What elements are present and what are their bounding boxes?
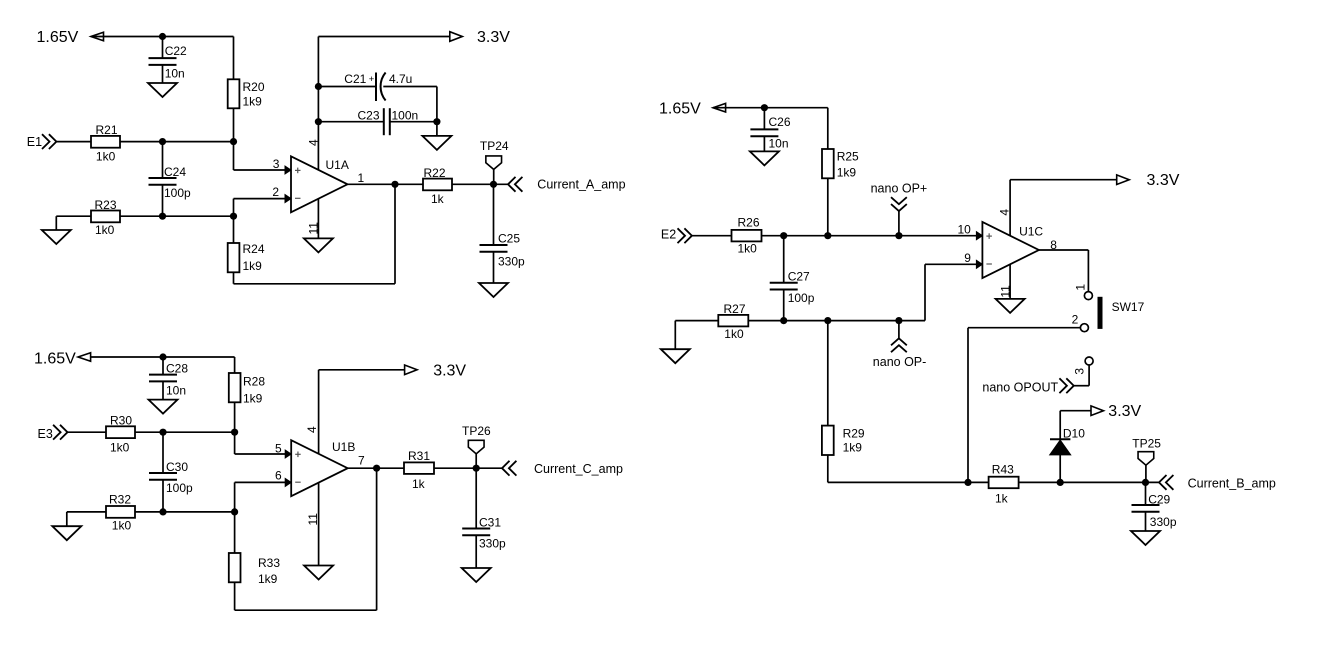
svg-text:1k0: 1k0 [110, 441, 130, 455]
svg-text:Current_A_amp: Current_A_amp [537, 177, 625, 191]
svg-text:1k9: 1k9 [258, 572, 278, 586]
svg-text:R23: R23 [95, 198, 117, 212]
svg-text:3.3V: 3.3V [477, 29, 510, 46]
node junction C23 right [433, 118, 440, 125]
wire feedback A [234, 184, 396, 283]
power flag 3.3V at D10 [1060, 403, 1141, 420]
svg-text:C21: C21 [344, 72, 366, 86]
svg-text:C30: C30 [166, 460, 188, 474]
svg-text:C28: C28 [166, 362, 188, 376]
input port E1 [27, 134, 57, 149]
wire R32 to inverting node B [135, 511, 235, 513]
input port nano OP+ [871, 182, 928, 212]
node junction C27 top [780, 232, 787, 239]
resistor R25 [822, 108, 859, 236]
node junction C30 bottom [159, 508, 166, 515]
ground below C26 [750, 151, 779, 165]
svg-text:1k0: 1k0 [112, 519, 132, 533]
node junction R28 bottom [231, 429, 238, 436]
wire U1A output [348, 183, 424, 185]
svg-text:330p: 330p [498, 255, 525, 269]
capacitor C26 [750, 108, 790, 152]
wire R31 to output port C [434, 467, 502, 469]
svg-text:100p: 100p [166, 481, 193, 495]
switch SW17 body [1098, 297, 1145, 329]
svg-text:C24: C24 [164, 165, 186, 179]
capacitor C22 [149, 37, 188, 84]
resistor R43 [989, 463, 1019, 506]
wire feedback B [235, 468, 377, 610]
node junction C26/rail C [761, 104, 768, 111]
svg-text:1k9: 1k9 [837, 165, 857, 179]
node junction SW17 pin2 column [964, 479, 971, 486]
svg-text:1: 1 [358, 171, 365, 185]
node junction C30 top [159, 429, 166, 436]
wire main row to pin 10 of U1C [762, 223, 983, 240]
svg-text:R22: R22 [424, 166, 446, 180]
capacitor C30 [149, 432, 193, 512]
svg-text:6: 6 [275, 469, 282, 483]
svg-text:1k0: 1k0 [724, 327, 744, 341]
svg-text:1k9: 1k9 [843, 441, 863, 455]
svg-text:2: 2 [272, 185, 279, 199]
svg-text:1.65V: 1.65V [34, 351, 76, 368]
ground below U1B pin 11 [304, 566, 333, 580]
node junction C28/rail B [159, 353, 166, 360]
output port Current_A_amp [508, 177, 626, 192]
op-amp U1C [982, 222, 1057, 278]
input port nano OP- [873, 321, 927, 369]
wire 1.65V rail C [713, 107, 828, 109]
svg-text:E3: E3 [38, 427, 53, 441]
resistor R22 [423, 166, 452, 206]
resistor R21 [91, 123, 120, 164]
svg-text:D10: D10 [1063, 427, 1085, 441]
wire R23 to inverting node [120, 215, 234, 217]
svg-text:1k9: 1k9 [243, 392, 263, 406]
power flag 3.3V rail C [1010, 172, 1180, 189]
svg-text:R20: R20 [243, 80, 265, 94]
wire to pin 6 of U1B [235, 469, 292, 512]
diode D10 [1050, 411, 1086, 483]
capacitor C31 [462, 468, 506, 568]
node junction TP26 [473, 465, 480, 472]
svg-text:10n: 10n [769, 137, 789, 151]
svg-text:1k0: 1k0 [738, 242, 758, 256]
wire SW17 pin 3 to nano OPOUT [1074, 365, 1089, 386]
switch SW17 pin 2 [1072, 313, 1089, 332]
svg-text:nano OP+: nano OP+ [871, 182, 928, 196]
svg-text:R28: R28 [243, 375, 265, 389]
wire 1.65V rail A [91, 36, 234, 38]
capacitor C28 [149, 357, 188, 400]
svg-text:TP25: TP25 [1132, 437, 1161, 451]
resistor R27 [718, 302, 748, 341]
svg-text:TP26: TP26 [462, 424, 491, 438]
node junction inverting net A [230, 213, 237, 220]
power flag 3.3V rail A [318, 29, 510, 46]
ground below U1A pin 11 [304, 238, 333, 252]
svg-text:1k9: 1k9 [243, 95, 263, 109]
wire C21 right down to C23 right [436, 87, 438, 122]
capacitor C27 [770, 236, 815, 321]
ground left of R32 [52, 512, 106, 540]
svg-text:C31: C31 [479, 516, 501, 530]
svg-text:1.65V: 1.65V [659, 101, 701, 118]
svg-text:TP24: TP24 [480, 139, 509, 153]
wire nano OP+ to main row [898, 211, 900, 236]
node junction C21 left [315, 83, 322, 90]
svg-text:Current_B_amp: Current_B_amp [1188, 477, 1276, 491]
resistor R33 [229, 512, 281, 610]
svg-text:10n: 10n [165, 67, 185, 81]
node junction C23 left [315, 118, 322, 125]
svg-text:1k: 1k [431, 192, 445, 206]
svg-text:3: 3 [273, 157, 280, 171]
svg-text:nano OPOUT: nano OPOUT [982, 380, 1058, 394]
switch SW17 pin 1 [1074, 284, 1093, 300]
ground below C23 [422, 122, 451, 150]
node junction D10 anode [1057, 479, 1064, 486]
output port Current_C_amp [502, 461, 623, 476]
svg-text:R26: R26 [738, 216, 760, 230]
node junction R29 top [824, 317, 831, 324]
wire second row C [748, 320, 925, 322]
svg-text:11: 11 [306, 513, 320, 526]
svg-text:R25: R25 [837, 149, 859, 163]
svg-text:R31: R31 [408, 449, 430, 463]
wire R21 to R20 column [120, 141, 234, 143]
svg-text:2: 2 [1072, 313, 1079, 327]
svg-text:1k: 1k [412, 477, 426, 491]
node junction C22/rail A [159, 33, 166, 40]
node junction feedback/output B [373, 465, 380, 472]
svg-text:330p: 330p [479, 537, 506, 551]
svg-text:1: 1 [1074, 284, 1088, 291]
ground below U1C pin 11 [996, 299, 1025, 313]
ground below C28 [149, 400, 178, 414]
wire 1.65V rail B [91, 356, 235, 358]
svg-text:100p: 100p [164, 186, 191, 200]
wire R30 to R28 column [135, 431, 235, 433]
svg-text:4.7u: 4.7u [389, 72, 412, 86]
svg-text:11: 11 [307, 222, 321, 235]
capacitor C24 [149, 142, 192, 217]
svg-text:4: 4 [997, 209, 1011, 216]
svg-text:3.3V: 3.3V [433, 363, 466, 380]
wire U1B output [348, 467, 404, 469]
capacitor C23 [318, 108, 437, 135]
svg-text:1k: 1k [995, 491, 1009, 505]
resistor R32 [106, 493, 135, 533]
pin 4 wire of U1A [307, 37, 321, 171]
switch SW17 pin 3 [1072, 357, 1093, 375]
svg-text:C26: C26 [769, 115, 791, 129]
svg-text:E2: E2 [661, 228, 676, 242]
svg-text:nano OP-: nano OP- [873, 355, 927, 369]
svg-text:3.3V: 3.3V [1108, 403, 1141, 420]
power flag 1.65V (net C) [659, 101, 726, 118]
svg-text:R33: R33 [258, 556, 280, 570]
ground left of R27 [661, 321, 719, 364]
svg-text:3: 3 [1072, 368, 1086, 375]
svg-text:100p: 100p [788, 291, 815, 305]
node junction TP25 [1142, 479, 1149, 486]
svg-text:+: + [369, 74, 375, 85]
svg-text:11: 11 [999, 285, 1013, 298]
pin 4 wire of U1C [997, 180, 1011, 236]
resistor R31 [404, 449, 434, 491]
wire SW17 pin 2 down to output node B [968, 328, 1081, 483]
svg-text:3.3V: 3.3V [1147, 172, 1180, 189]
node junction feedback/output A [391, 181, 398, 188]
svg-text:C27: C27 [788, 270, 810, 284]
wire E3 to R30 [68, 431, 107, 433]
power flag 1.65V (net A) [37, 29, 104, 46]
wire to pin 5 of U1B [235, 432, 292, 458]
svg-text:1k0: 1k0 [95, 223, 115, 237]
power flag 3.3V rail B [319, 363, 467, 380]
svg-text:10: 10 [958, 223, 972, 237]
svg-text:4: 4 [307, 139, 321, 146]
node junction nano OP+ column [895, 232, 902, 239]
node junction C27 bottom [780, 317, 787, 324]
test point TP25 [1132, 437, 1161, 483]
test point TP26 [462, 424, 491, 468]
svg-text:R32: R32 [109, 493, 131, 507]
svg-text:R24: R24 [243, 242, 265, 256]
input port E2 [661, 228, 692, 244]
pin 4 wire of U1B [305, 370, 319, 454]
svg-text:1k0: 1k0 [96, 149, 116, 163]
resistor R23 [91, 198, 120, 237]
svg-text:1k9: 1k9 [243, 259, 263, 273]
resistor R26 [732, 216, 762, 256]
wire R22 to output port A [452, 183, 508, 185]
capacitor C29 [1132, 482, 1177, 531]
op-amp U1B [291, 440, 365, 496]
node junction R20 bottom [230, 138, 237, 145]
svg-text:R30: R30 [110, 414, 132, 428]
node junction C24 bottom [159, 213, 166, 220]
wire to pin 2 of U1A [234, 185, 292, 216]
svg-text:C29: C29 [1148, 492, 1170, 506]
capacitor C25 [480, 184, 526, 283]
resistor R20 [228, 37, 265, 142]
node junction TP24 [490, 181, 497, 188]
node junction C24 top [159, 138, 166, 145]
svg-text:10n: 10n [166, 384, 186, 398]
resistor R28 [229, 357, 266, 432]
svg-text:R43: R43 [992, 463, 1014, 477]
svg-text:SW17: SW17 [1112, 300, 1145, 314]
op-amp U1A [291, 156, 365, 212]
svg-text:1.65V: 1.65V [37, 29, 79, 46]
svg-text:R27: R27 [724, 302, 746, 316]
ground below C25 [479, 283, 508, 297]
output port Current_B_amp [1159, 475, 1276, 491]
capacitor C21 polarized [318, 72, 437, 101]
svg-text:5: 5 [275, 442, 282, 456]
output port nano OPOUT [982, 378, 1073, 394]
ground below C22 [148, 83, 177, 97]
input port E3 [38, 425, 68, 441]
ground left of R23 [42, 216, 91, 244]
svg-text:Current_C_amp: Current_C_amp [534, 462, 623, 476]
ground below C31 [462, 568, 491, 582]
svg-text:E1: E1 [27, 135, 42, 149]
svg-text:U1C: U1C [1019, 225, 1043, 239]
svg-text:7: 7 [358, 454, 365, 468]
ground below C29 [1131, 531, 1160, 545]
wire to pin 3 of U1A [234, 142, 292, 174]
svg-text:9: 9 [964, 251, 971, 265]
svg-text:C23: C23 [358, 108, 380, 122]
node junction R25 bottom [824, 232, 831, 239]
svg-text:C25: C25 [498, 232, 520, 246]
resistor R29 [822, 321, 865, 483]
node junction nano OP- column [895, 317, 902, 324]
pin 11 wire of U1C [999, 264, 1013, 299]
resistor R30 [106, 414, 135, 455]
wire pin 8 of U1C to SW17 pin 1 [1039, 250, 1089, 292]
test point TP24 [480, 139, 509, 184]
power flag 1.65V (net B) [34, 351, 91, 368]
wire E1 to R21 [56, 141, 91, 143]
svg-text:U1A: U1A [326, 158, 349, 172]
wire R43 to output port B [1019, 481, 1159, 483]
node junction inverting net B [231, 508, 238, 515]
svg-text:330p: 330p [1150, 515, 1177, 529]
svg-text:R29: R29 [843, 427, 865, 441]
pin 11 wire of U1B [306, 482, 320, 565]
wire bottom row B [828, 481, 989, 483]
wire E2 to R26 [692, 235, 732, 237]
wire to pin 9 of U1C [925, 251, 982, 321]
svg-text:R21: R21 [96, 123, 118, 137]
svg-text:C22: C22 [165, 44, 187, 58]
resistor R24 [228, 216, 265, 284]
svg-text:4: 4 [305, 426, 319, 433]
svg-text:100n: 100n [392, 108, 419, 122]
svg-text:U1B: U1B [332, 440, 355, 454]
pin 11 wire of U1A [307, 199, 321, 239]
